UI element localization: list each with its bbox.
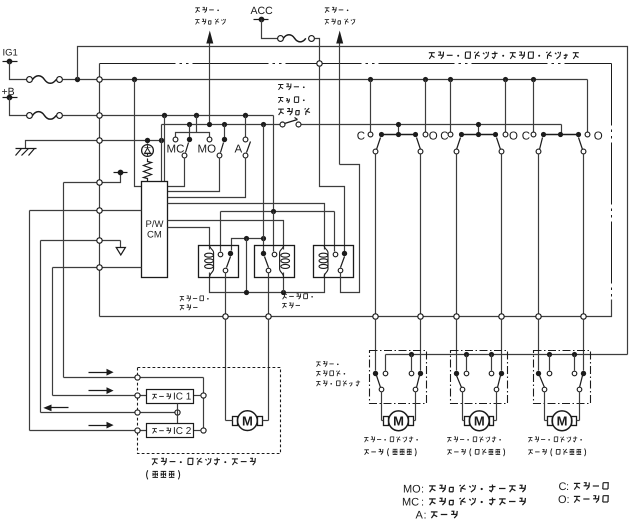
label close relay xyxy=(180,295,184,297)
wire top rail to sub switches xyxy=(78,47,628,355)
connector pin ground through boundary xyxy=(97,138,102,143)
relay K3 pivot xyxy=(338,268,343,273)
contact MO fixed xyxy=(207,137,212,142)
svg-text:O: O xyxy=(594,130,603,142)
switch MC fixed-contact bracket xyxy=(196,116,198,133)
node common line taps xyxy=(187,122,192,127)
wire switch common down to relay2 moving contact xyxy=(263,125,265,252)
switch group 3 common bar xyxy=(544,134,579,136)
connector pin motor left xyxy=(223,314,228,319)
node hall IC1-IC2 join xyxy=(175,410,180,415)
switch group 1 left arm xyxy=(377,138,381,150)
wire IG1 line to main switch contacts xyxy=(63,79,588,81)
relay K1 fixed contact xyxy=(218,252,223,257)
net to mirror switch (right arrow) xyxy=(339,44,341,165)
wire switch arm output x=583.6 xyxy=(583,155,585,314)
wire relay coil return line xyxy=(210,273,325,293)
svg-text::: : xyxy=(421,497,424,509)
svg-text:ACC: ACC xyxy=(251,5,274,17)
relay K1 pivot xyxy=(223,268,228,273)
label hall IC 1 xyxy=(152,393,157,395)
label hall IC 2 xyxy=(152,428,157,430)
ground (open triangle) xyxy=(116,248,125,256)
svg-text:M: M xyxy=(393,413,404,428)
fixed contact R xyxy=(489,371,494,376)
power window sub switch SS3 rear left xyxy=(534,351,591,404)
node IG1 to P/W CM xyxy=(132,77,137,82)
wire coil return junction xyxy=(246,239,248,293)
svg-text:P/W: P/W xyxy=(146,219,164,230)
wire ACC feed down to close relay contact xyxy=(320,66,345,252)
connector pin on boundary xyxy=(581,314,586,319)
relay K3 (mirror/close relay) xyxy=(314,246,354,278)
sub switch arms xyxy=(540,376,545,388)
label power window motor rear right xyxy=(447,436,451,438)
resistor R1 xyxy=(144,159,152,182)
pin hall IC2 right xyxy=(201,428,206,433)
hall IC1-IC2 link xyxy=(177,404,179,424)
wire MO arm to P/W CM xyxy=(168,158,220,192)
sub switch arms xyxy=(457,376,462,388)
net B: into P/W CM left xyxy=(30,210,142,212)
wire MC arm to P/W CM xyxy=(168,158,185,187)
svg-text:IG1: IG1 xyxy=(3,48,18,59)
wire switch arm output x=375.5 xyxy=(375,155,377,314)
hall IC output line 3 xyxy=(41,412,178,414)
fixed contact R xyxy=(409,371,414,376)
sub switch moving contact xyxy=(536,371,541,376)
label power window main switch xyxy=(429,52,435,54)
wire +B down to relay fixed contacts xyxy=(273,116,275,211)
main switch connector boundary left xyxy=(99,64,101,317)
sub switch moving contact xyxy=(418,371,423,376)
node relay2 coil return xyxy=(281,290,286,295)
hall IC1 xyxy=(147,390,194,404)
fuse F1 (IG1) xyxy=(27,77,33,83)
terminal stub net A xyxy=(118,170,124,176)
motor M1 driver door xyxy=(238,411,258,431)
fuse F3 (ACC) xyxy=(278,36,284,42)
main switch unit boundary chain line right xyxy=(611,64,613,300)
wire relay K3 output loop to mirror arrow xyxy=(340,165,360,293)
switch group 1 O contact feed xyxy=(423,77,428,82)
hall IC2 line 4 xyxy=(30,430,147,432)
fixed contact L xyxy=(547,371,552,376)
wire switch arm output x=501.5 xyxy=(501,155,503,314)
connector pin on boundary xyxy=(373,314,378,319)
node +B taps xyxy=(162,113,167,118)
contact MC fixed xyxy=(173,137,178,142)
wire net A down to hall IC supply line xyxy=(63,183,65,378)
relay K3 moving contact xyxy=(342,251,347,256)
pin hall IC1 right xyxy=(201,393,206,398)
connector pin on boundary xyxy=(418,314,423,319)
contact O2 xyxy=(503,132,508,137)
label power window sub switch xyxy=(316,361,320,363)
relay K2 fixed contact xyxy=(272,252,277,257)
sub switch moving contact xyxy=(373,371,378,376)
label power window motor driver xyxy=(152,458,158,460)
main switch unit boundary chain line top xyxy=(100,63,612,65)
connector pin ACC on chain boundary xyxy=(317,61,322,66)
sub switch moving contact xyxy=(581,371,586,376)
switch group 2 O contact feed xyxy=(503,77,508,82)
connector pin motor right xyxy=(266,314,271,319)
connector pin IG1 through boundary xyxy=(97,77,102,82)
svg-text:A: A xyxy=(416,510,424,522)
node bracket to coil return xyxy=(244,236,249,241)
connector pin on boundary xyxy=(499,314,504,319)
wire relay K1 output to motor left xyxy=(225,273,227,314)
switch group 2 C contact feed xyxy=(448,77,453,82)
wire P/W CM to relay 1 coil xyxy=(168,228,210,250)
node ground to LED xyxy=(145,138,150,143)
relay K1 moving contact xyxy=(228,251,233,256)
signal arrows xyxy=(89,372,107,374)
wire sub switch feed line xyxy=(386,354,628,356)
connector pin net C xyxy=(97,238,102,243)
motor M2 passenger xyxy=(389,411,409,431)
contact O3 xyxy=(585,132,590,137)
power window sub switch SS1 passenger xyxy=(370,351,427,404)
connector pin net D xyxy=(97,265,102,270)
node ground to switch common xyxy=(159,138,164,143)
hall IC1 line 2 xyxy=(53,395,147,397)
svg-text:MC: MC xyxy=(167,144,185,156)
hall IC2 xyxy=(147,424,194,438)
switch group 2 left arm xyxy=(457,138,461,150)
ground chassis symbol xyxy=(26,141,100,149)
switch group 3 left arm xyxy=(540,138,543,150)
wire +B to fuse xyxy=(10,98,27,116)
connector pin line4 xyxy=(135,428,140,433)
wire switch common line (power cut line) xyxy=(162,124,280,126)
net D: into P/W CM left lower xyxy=(53,267,142,269)
wire switch arm output x=538.5 xyxy=(538,155,540,314)
hall IC supply line 1 xyxy=(64,377,204,379)
connector pin on boundary xyxy=(454,314,459,319)
relay K3 fixed contact xyxy=(333,252,338,257)
wire ACC to fuse xyxy=(262,20,278,39)
motor M3 rear right xyxy=(469,411,489,431)
relay K2 (open relay) xyxy=(255,246,295,278)
wire relay K2 output to motor right xyxy=(268,273,270,314)
power window motor (driver) dashed enclosure xyxy=(138,368,281,454)
svg-text::: : xyxy=(566,481,569,493)
sub switch moving contact xyxy=(454,371,459,376)
switch A (auto) xyxy=(245,116,247,138)
wires to motor xyxy=(381,392,383,421)
svg-text::: : xyxy=(567,494,570,506)
main switch connector boundary bottom xyxy=(100,300,612,317)
svg-text:O: O xyxy=(429,130,438,142)
node +B to relay contacts xyxy=(271,209,276,214)
connector pin net B xyxy=(97,208,102,213)
wire P/W CM to close relay 3 coil xyxy=(168,204,325,250)
label power window motor rear left xyxy=(528,436,532,438)
relay K2 pivot xyxy=(266,268,271,273)
fixed contact R xyxy=(572,371,577,376)
switch MO moving contact xyxy=(224,125,226,138)
connector pin line3 xyxy=(135,410,140,415)
svg-text:IC 1: IC 1 xyxy=(173,392,192,403)
svg-text::: : xyxy=(421,484,424,496)
label open relay xyxy=(282,293,287,295)
switch group 1 common bar xyxy=(382,134,416,136)
wire P/W CM to relay 2 coil xyxy=(168,221,284,250)
wire switch arm output x=420.7 xyxy=(420,155,422,314)
svg-text:M: M xyxy=(557,413,568,428)
label power cut switch xyxy=(278,84,283,86)
svg-text:C: C xyxy=(357,130,365,142)
wires to motor xyxy=(544,392,546,421)
svg-text:C: C xyxy=(522,130,530,142)
switch group 2 right arm xyxy=(497,138,501,150)
switch group 3 right arm xyxy=(579,138,583,150)
connector pin +B through boundary xyxy=(97,113,102,118)
contact C3 xyxy=(531,132,536,137)
svg-text:A: A xyxy=(235,144,243,156)
connector pin line1 xyxy=(135,375,140,380)
net C: signal with floating ground xyxy=(41,240,121,242)
svg-text:MO: MO xyxy=(198,144,217,156)
svg-text:M: M xyxy=(242,413,253,428)
wire +B tap into P/W CM top xyxy=(164,116,166,182)
sub switch arms xyxy=(377,376,381,388)
wire A arm to P/W CM xyxy=(168,158,246,198)
wire ACC to unit xyxy=(315,39,320,61)
wire relay fixed contact net (+B) xyxy=(221,211,335,213)
wire common line into P/W CM top xyxy=(161,125,163,182)
switch group 2 common bar xyxy=(462,134,496,136)
svg-text::: : xyxy=(424,510,427,522)
node coil return xyxy=(244,290,249,295)
label mirror switch left xyxy=(195,7,200,9)
connector pin line2 xyxy=(135,393,140,398)
contact C1 xyxy=(368,132,373,137)
op-amp/controller unit P/W CM xyxy=(142,182,168,278)
svg-text:MC: MC xyxy=(402,497,419,509)
switch group 3 O contact feed xyxy=(587,80,589,133)
wire +B line xyxy=(63,115,274,117)
sub switch moving contact xyxy=(499,371,504,376)
power cut switch xyxy=(280,122,285,127)
power window sub switch SS2 rear right xyxy=(451,351,508,404)
connector pin on boundary xyxy=(536,314,541,319)
node IG1 junction to top line xyxy=(75,77,80,82)
relay K2 moving contact xyxy=(261,251,266,256)
wires to motor xyxy=(462,392,464,421)
svg-text:M: M xyxy=(474,413,485,428)
contact C2 xyxy=(448,132,453,137)
net to mirror switch (left arrow) xyxy=(209,44,211,125)
svg-text:CM: CM xyxy=(147,230,162,241)
node bracket join xyxy=(261,236,266,241)
wire switch arm output x=456.0 xyxy=(456,155,458,314)
contact O1 xyxy=(423,132,428,137)
svg-text:IC 2: IC 2 xyxy=(173,426,192,437)
label power window motor passenger xyxy=(364,436,368,438)
connector pin net A xyxy=(97,180,102,185)
net A: pulse signal terminal xyxy=(64,175,121,183)
switch MC moving contact xyxy=(189,125,191,138)
switch group 3 C contact feed xyxy=(531,77,536,82)
fixed contact L xyxy=(383,371,388,376)
relay K1 (close relay) xyxy=(199,246,239,278)
indicator LED D1 xyxy=(147,144,149,145)
switch group 1 right arm xyxy=(417,138,421,150)
wire IG1 to fuse xyxy=(10,62,27,80)
motor M4 rear left xyxy=(552,411,572,431)
fuse F2 (+B) xyxy=(27,113,33,119)
svg-text:O: O xyxy=(509,130,518,142)
switch group 1 C contact feed xyxy=(368,77,373,82)
wire ground line xyxy=(100,140,162,142)
wire to P/W CM left pin xyxy=(135,80,142,187)
wire relay moving contact bracket xyxy=(232,239,264,251)
label mirror switch right xyxy=(325,7,330,9)
svg-text:C: C xyxy=(440,130,448,142)
svg-text:MO: MO xyxy=(403,484,421,496)
fixed contact L xyxy=(464,371,469,376)
